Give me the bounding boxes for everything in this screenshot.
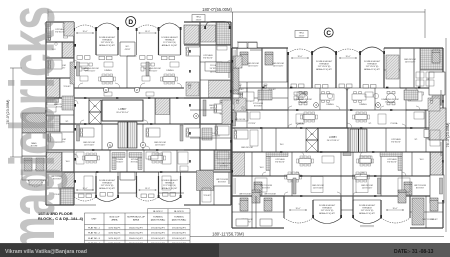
C mid-right fixture cluster [428, 98, 440, 111]
svg-text:8'0"X9'0": 8'0"X9'0" [262, 188, 271, 190]
solid terrace room left [313, 200, 341, 224]
D stair band [46, 124, 231, 150]
D top hatched WC room [184, 25, 199, 53]
solid terrace room right [353, 200, 381, 224]
C mid-left fixture cluster [234, 98, 246, 111]
svg-text:1070 SQ.FT.: 1070 SQ.FT. [108, 233, 121, 235]
D bottom band right extras [76, 152, 171, 164]
svg-text:(ADDITIONAL): (ADDITIONAL) [172, 219, 187, 222]
svg-text:BED ROOM: BED ROOM [241, 147, 253, 149]
D right column labels [203, 55, 228, 197]
svg-text:TERRACE: TERRACE [165, 39, 175, 42]
svg-text:BED ROOM: BED ROOM [235, 119, 246, 121]
spine horizontal walls density [190, 12, 425, 170]
C big beds bottom band [252, 190, 260, 203]
svg-text:180'-11"(56.73M): 180'-11"(56.73M) [212, 232, 244, 237]
svg-text:ST.: ST. [369, 123, 372, 125]
C bottom-left bedroom beds dark [240, 198, 248, 211]
C bottom left rooms [232, 196, 284, 228]
D living extra sofa detail [80, 62, 179, 81]
svg-text:8'0"X9'0": 8'0"X9'0" [218, 182, 227, 184]
C TER-1 box [295, 31, 308, 38]
open terrace right [381, 196, 410, 223]
more labels C [241, 122, 434, 224]
D kitchen counters mid band [112, 153, 125, 158]
C top-right rooms [384, 48, 443, 88]
svg-text:19'-0": 19'-0" [82, 31, 87, 33]
svg-text:12'0"X10'0": 12'0"X10'0" [84, 145, 95, 147]
svg-text:DINING: DINING [104, 70, 112, 72]
svg-text:FLAT NO.-1: FLAT NO.-1 [88, 226, 100, 229]
svg-text:12'0"X10'0": 12'0"X10'0" [362, 188, 373, 190]
svg-text:DINING: DINING [359, 104, 367, 106]
svg-text:12'0"X10'0": 12'0"X10'0" [313, 188, 324, 190]
D left column labels [52, 29, 72, 163]
svg-text:170.00 SQ.FT.: 170.00 SQ.FT. [172, 238, 186, 240]
svg-text:19'-0": 19'-0" [295, 208, 300, 210]
more beds in C mid right [408, 92, 422, 101]
window triple lines on outer walls [47, 24, 442, 227]
svg-text:LOBBY: LOBBY [329, 136, 337, 139]
svg-text:TERRACE: TERRACE [362, 207, 372, 210]
svg-text:AREA=11 SQ.MT: AREA=11 SQ.MT [364, 68, 380, 71]
D living furniture [79, 63, 178, 84]
svg-text:180'-0"(55.00M): 180'-0"(55.00M) [202, 7, 232, 12]
svg-text:C: C [326, 30, 331, 37]
posts at solid terrace rooms [95, 27, 97, 30]
svg-text:Vikram villa Vatika@Banjara ro: Vikram villa Vatika@Banjara road [5, 249, 87, 255]
svg-text:D: D [128, 19, 133, 26]
svg-text:TURMOIL: TURMOIL [153, 217, 164, 219]
svg-text:DINING: DINING [326, 104, 334, 106]
svg-text:19'-0": 19'-0" [297, 56, 302, 58]
D stair [118, 122, 137, 148]
C bottom-right bed [430, 198, 438, 211]
svg-text:7'0"X9'0": 7'0"X9'0" [248, 123, 256, 125]
D top flat1 terrace room [96, 23, 118, 55]
D toilet hatch right of lobby [156, 99, 170, 115]
left balcony blob [28, 180, 44, 187]
svg-text:8'0"X10'0": 8'0"X10'0" [391, 142, 401, 144]
D bottom flat2 terrace room [159, 176, 181, 202]
D spine arc-top room [205, 22, 230, 29]
svg-text:AREA=11 SQ.MT: AREA=11 SQ.MT [359, 212, 375, 215]
more door arcs C [232, 88, 418, 196]
svg-text:19'-0": 19'-0" [345, 56, 350, 58]
svg-text:10'0"X11'6": 10'0"X11'6" [273, 66, 284, 68]
spine hatch strip [222, 100, 231, 124]
C dark bed right top [432, 50, 440, 63]
D-left col extra [64, 22, 74, 36]
svg-text:20'-0"X13'-0": 20'-0"X13'-0" [116, 112, 129, 114]
svg-text:TERRACE: TERRACE [165, 182, 175, 185]
svg-text:TOILET: TOILET [203, 195, 211, 197]
svg-text:AREA=11 SQ.MT: AREA=11 SQ.MT [319, 212, 335, 215]
svg-text:10'0"X11'6": 10'0"X11'6" [248, 66, 259, 68]
svg-text:W.C.: W.C. [280, 144, 285, 146]
C top flat1 open terrace [287, 49, 313, 88]
left protrusion bed dark [36, 158, 44, 171]
svg-text:170.00 SQ.FT.: 170.00 SQ.FT. [172, 227, 186, 229]
D bottom flat2 open terrace [137, 176, 159, 201]
svg-text:FLAT NO.-2: FLAT NO.-2 [88, 232, 100, 235]
D outer walls [46, 22, 231, 205]
C stair [350, 129, 367, 152]
D living labels [81, 67, 174, 73]
D bottom flat1 terrace room [96, 176, 118, 202]
svg-text:170.00 SQ.FT.: 170.00 SQ.FT. [151, 238, 165, 240]
svg-text:17'0"X11'0": 17'0"X11'0" [85, 71, 96, 73]
svg-text:DRAWING ROOM: DRAWING ROOM [381, 98, 398, 101]
svg-text:AREA: AREA [133, 219, 139, 222]
svg-text:POOJA: POOJA [391, 122, 398, 125]
svg-text:DRAWING ROOM: DRAWING ROOM [81, 67, 98, 70]
D bottom flat1 open terrace [74, 172, 96, 201]
C wardrobe strip left [233, 68, 239, 94]
svg-text:AREA=11 SQ.MT: AREA=11 SQ.MT [316, 68, 332, 71]
WC boxes row C right [416, 72, 434, 86]
svg-text:19'-0": 19'-0" [82, 188, 87, 190]
svg-text:1070 SQ.FT.: 1070 SQ.FT. [108, 227, 121, 229]
svg-text:(ADDITIONAL): (ADDITIONAL) [151, 219, 166, 222]
D band 124-150 beds [80, 128, 94, 137]
svg-text:W.C.: W.C. [420, 159, 425, 161]
D corridor circled numbers [103, 87, 139, 92]
C bedroom band 152-196 [232, 152, 443, 196]
corridor door posts C [260, 109, 412, 197]
C bottom right rooms [410, 196, 443, 228]
svg-text:76'-0"(23.09M): 76'-0"(23.09M) [446, 122, 450, 148]
svg-text:170.00 SQ.FT.: 170.00 SQ.FT. [172, 233, 186, 235]
svg-text:AREA=11 SQ.MT: AREA=11 SQ.MT [99, 187, 115, 190]
svg-text:AREA: AREA [112, 219, 118, 222]
D living band walls [74, 56, 184, 88]
svg-text:TERRACE: TERRACE [102, 39, 112, 42]
D top gap column w/ box [120, 42, 135, 56]
svg-text:AREA=11 SQ.MT: AREA=11 SQ.MT [99, 44, 115, 47]
C TER box right mid [424, 130, 439, 138]
svg-text:8'0"X8'0": 8'0"X8'0" [254, 106, 263, 108]
D grey fixtures right column [197, 25, 231, 191]
svg-text:10'0"X11'6": 10'0"X11'6" [405, 62, 416, 64]
open terrace left [284, 196, 313, 223]
svg-text:170.00 SQ.FT.: 170.00 SQ.FT. [151, 233, 165, 235]
left protrusion extra cell [22, 156, 46, 180]
svg-text:UNIT: UNIT [91, 219, 97, 221]
svg-text:TERRACE: TERRACE [319, 63, 329, 66]
svg-text:TURMOIL: TURMOIL [174, 217, 185, 219]
svg-text:19'-0": 19'-0" [392, 208, 397, 210]
svg-text:20'-0"X13'-0": 20'-0"X13'-0" [327, 140, 340, 142]
svg-text:W.C.: W.C. [125, 46, 130, 48]
round dining tables C [299, 92, 396, 105]
svg-text:DINING: DINING [166, 70, 174, 72]
C planter row below top bays [291, 84, 304, 88]
C top flat2 terrace room [312, 47, 384, 88]
svg-text:4'X5'8": 4'X5'8" [125, 49, 131, 51]
D right service column walls [184, 22, 231, 205]
D bedroom band 172-193 [74, 172, 184, 193]
svg-text:WET ROOM: WET ROOM [422, 219, 434, 221]
D top flat2 terrace room [159, 23, 181, 55]
circled 4 and 5 C [314, 103, 319, 108]
svg-text:DATE:- 31 -08-13: DATE:- 31 -08-13 [394, 249, 434, 255]
D grey fixtures left column [47, 43, 74, 205]
svg-text:1504.0 SQ.FT.: 1504.0 SQ.FT. [129, 233, 143, 235]
svg-text:1'X5'8": 1'X5'8" [196, 19, 202, 21]
svg-text:AREA=11 SQ.MT: AREA=11 SQ.MT [162, 187, 178, 190]
D left service column walls [46, 22, 96, 205]
svg-text:170.00 SQ.FT.: 170.00 SQ.FT. [151, 227, 165, 229]
svg-text:TER-1: TER-1 [299, 33, 304, 35]
svg-text:WET ROOM: WET ROOM [239, 194, 251, 196]
D band 150-172 right extras [178, 152, 188, 171]
scattered door posts [45, 44, 444, 203]
C living band 88-128 [232, 88, 443, 128]
C lobby band 128-152 [232, 128, 443, 152]
svg-text:W.C.: W.C. [260, 167, 265, 169]
svg-text:POOJA ROOM: POOJA ROOM [217, 162, 231, 165]
D bottom gap box [120, 172, 135, 180]
D lobby band [46, 98, 231, 124]
svg-text:1070 SQ.FT.: 1070 SQ.FT. [108, 238, 121, 240]
svg-text:8'0"X10'0": 8'0"X10'0" [203, 58, 213, 60]
svg-text:1504.0 SQ.FT.: 1504.0 SQ.FT. [129, 227, 143, 229]
svg-text:19'-0": 19'-0" [145, 188, 150, 190]
svg-text:19'-0": 19'-0" [145, 31, 150, 33]
svg-text:1'X5'8": 1'X5'8" [299, 35, 305, 37]
D top flat1 open terrace [73, 25, 97, 55]
center dining clusters C [320, 92, 366, 102]
svg-text:LOBBY: LOBBY [119, 108, 127, 111]
C kitchen counters bottom band [266, 153, 288, 157]
C dining tables in bottom band [284, 172, 301, 182]
wardrobe strips [77, 62, 443, 194]
C left wardrobe widen [233, 56, 242, 68]
svg-text:5'0"X5'0": 5'0"X5'0" [220, 166, 228, 168]
svg-text:ST.: ST. [414, 139, 417, 141]
svg-text:AREA=11 SQ.MT: AREA=11 SQ.MT [162, 44, 178, 47]
extra tiny furniture [47, 24, 440, 203]
C top-left bedrooms [232, 42, 288, 98]
svg-text:TOILET: TOILET [237, 94, 244, 96]
tiny labels C left [235, 86, 267, 125]
svg-text:8'0"X10'0": 8'0"X10'0" [387, 162, 397, 164]
svg-text:TERRACE: TERRACE [367, 63, 377, 66]
D tile kitchen top-right [217, 23, 231, 45]
C bottom center gap [341, 196, 353, 218]
D bottom planters [79, 194, 92, 198]
spine extra furniture [186, 47, 200, 56]
svg-text:SUPER BUILT-UP: SUPER BUILT-UP [127, 217, 145, 219]
D extra hatch small left col [62, 173, 74, 188]
C small dark boxes right mid [432, 96, 441, 105]
svg-text:FLAT NO.-3: FLAT NO.-3 [88, 237, 100, 240]
C top flat1 terrace room [312, 47, 336, 88]
wall poché underlay [46, 22, 443, 228]
svg-text:WET ROOM: WET ROOM [264, 194, 276, 196]
D kitchen counters top-left [47, 23, 51, 41]
svg-text:8'0"X10'0": 8'0"X10'0" [275, 162, 285, 164]
D TER-1 label box top-right [192, 15, 205, 22]
svg-text:BUILT-UP: BUILT-UP [110, 217, 120, 219]
svg-text:TERRACE: TERRACE [102, 182, 112, 185]
svg-text:POOJA: POOJA [297, 122, 304, 125]
C top flat2 open terrace [335, 49, 361, 88]
corridor door posts D [84, 97, 178, 173]
C outer walls [232, 48, 443, 228]
svg-text:BLOCK C: BLOCK C [153, 211, 163, 213]
C boxes above top-left bedrooms [238, 43, 247, 49]
D beds [48, 60, 62, 69]
D planter rows below top bays [77, 56, 175, 60]
svg-text:TER-1: TER-1 [196, 17, 201, 19]
corridor cabinets C [250, 112, 424, 124]
svg-text:TERRACE: TERRACE [322, 207, 332, 210]
D kitchen/dining band 150-172 [46, 150, 231, 172]
svg-text:DRAWING ROOM: DRAWING ROOM [294, 98, 311, 101]
D top flat2 open terrace [136, 25, 160, 55]
svg-text:12'0"X10'0": 12'0"X10'0" [155, 145, 166, 147]
svg-text:magicbricks: magicbricks [0, 6, 68, 254]
svg-text:8'0"X9'0": 8'0"X9'0" [416, 188, 425, 190]
D spine extra tiles [216, 63, 230, 73]
svg-text:1504.0 SQ.FT.: 1504.0 SQ.FT. [129, 238, 143, 240]
svg-text:BLOCK D: BLOCK D [174, 211, 184, 213]
